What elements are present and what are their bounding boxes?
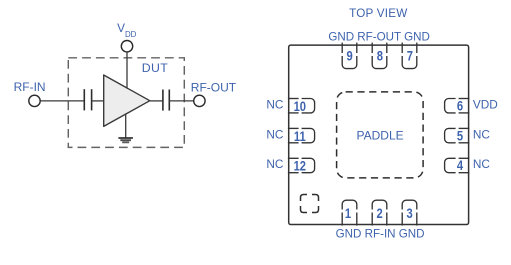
svg-text:8: 8 bbox=[377, 48, 383, 63]
svg-text:GND RF-OUT GND: GND RF-OUT GND bbox=[328, 30, 430, 43]
svg-text:6: 6 bbox=[457, 98, 463, 113]
pin 5 bbox=[445, 128, 470, 142]
svg-text:VDD: VDD bbox=[473, 97, 498, 111]
svg-text:7: 7 bbox=[407, 48, 413, 63]
pin 1 indicator (dashed corner square) bbox=[301, 195, 319, 213]
pin 4 bbox=[445, 158, 470, 172]
pin 12 bbox=[288, 158, 315, 172]
port VDD bbox=[121, 41, 132, 52]
svg-text:RF-IN: RF-IN bbox=[14, 80, 46, 94]
pin 9 bbox=[342, 43, 357, 69]
wire amplifier output to C2 bbox=[150, 100, 163, 102]
wire RF-IN port to C1 bbox=[40, 100, 84, 102]
svg-text:VDD: VDD bbox=[117, 21, 137, 39]
capacitor C1 (input blocking cap) bbox=[83, 89, 85, 110]
svg-text:11: 11 bbox=[294, 129, 306, 144]
package outline bbox=[289, 45, 469, 224]
svg-text:DUT: DUT bbox=[142, 61, 169, 75]
port RF-IN bbox=[29, 95, 40, 106]
svg-text:10: 10 bbox=[294, 99, 306, 114]
pin 2 bbox=[372, 200, 387, 225]
ground bbox=[118, 138, 132, 142]
op-amp U1 (amplifier triangle) bbox=[104, 75, 150, 126]
wire C1 to amplifier input bbox=[92, 100, 104, 102]
svg-text:PADDLE: PADDLE bbox=[357, 129, 404, 143]
pin 8 bbox=[372, 43, 387, 69]
pin 6 bbox=[445, 99, 470, 113]
svg-text:NC: NC bbox=[473, 157, 491, 171]
svg-text:9: 9 bbox=[346, 48, 352, 63]
pin 7 bbox=[402, 43, 417, 69]
pin 10 bbox=[288, 99, 315, 113]
capacitor C2 (output blocking cap) bbox=[162, 90, 164, 111]
wire VDD to amplifier top bbox=[126, 52, 128, 88]
svg-text:RF-OUT: RF-OUT bbox=[191, 80, 237, 94]
pin 1 bbox=[342, 200, 357, 225]
port RF-OUT bbox=[194, 95, 205, 106]
svg-text:5: 5 bbox=[457, 128, 463, 143]
svg-text:GND RF-IN GND: GND RF-IN GND bbox=[336, 228, 425, 241]
svg-text:1: 1 bbox=[345, 206, 351, 221]
svg-text:2: 2 bbox=[376, 206, 382, 221]
svg-text:NC: NC bbox=[266, 97, 284, 111]
wire C2 to RF-OUT port bbox=[169, 100, 193, 102]
pin 11 bbox=[288, 128, 315, 142]
svg-text:12: 12 bbox=[294, 159, 306, 174]
svg-text:3: 3 bbox=[406, 206, 412, 221]
svg-text:NC: NC bbox=[266, 157, 284, 171]
svg-text:TOP VIEW: TOP VIEW bbox=[349, 7, 407, 20]
svg-text:NC: NC bbox=[266, 127, 284, 141]
svg-text:NC: NC bbox=[473, 127, 491, 141]
wire amplifier bottom to ground bbox=[125, 114, 127, 138]
pin 3 bbox=[402, 200, 417, 225]
svg-text:4: 4 bbox=[457, 158, 463, 173]
DUT dashed box bbox=[68, 58, 184, 148]
paddle (exposed pad, dashed) bbox=[337, 92, 424, 178]
